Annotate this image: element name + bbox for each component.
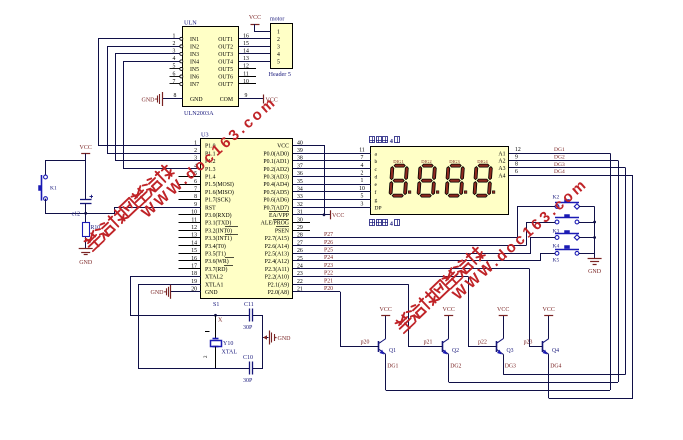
svg-text:10: 10 xyxy=(359,186,365,192)
svg-text:P3.7(RD): P3.7(RD) xyxy=(205,266,227,273)
connector J1 Header 5 motor xyxy=(269,16,293,78)
label p21 xyxy=(424,340,433,346)
svg-text:4: 4 xyxy=(361,163,364,169)
svg-text:p21: p21 xyxy=(424,340,433,346)
svg-text:DG2: DG2 xyxy=(450,364,461,370)
wire base p21 to Q2 xyxy=(409,284,443,346)
svg-text:P1.4: P1.4 xyxy=(205,175,216,181)
svg-text:P21: P21 xyxy=(324,278,333,284)
svg-text:PSEN: PSEN xyxy=(275,228,290,234)
svg-text:Q2: Q2 xyxy=(452,348,459,354)
svg-text:DG1: DG1 xyxy=(387,364,398,370)
svg-text:f: f xyxy=(375,189,377,196)
svg-text:IN7: IN7 xyxy=(190,82,199,88)
svg-text:ULN2003A: ULN2003A xyxy=(184,110,214,117)
ground for buttons xyxy=(588,259,602,276)
svg-text:P0.4(AD4): P0.4(AD4) xyxy=(263,181,289,188)
svg-text:P3.1(TXD): P3.1(TXD) xyxy=(205,220,231,227)
svg-text:P0.2(AD2): P0.2(AD2) xyxy=(263,166,289,173)
svg-text:GND: GND xyxy=(142,97,156,103)
wire ULN IN2 to MCU P1.1 xyxy=(108,47,202,154)
wire gnd spur xyxy=(263,335,269,339)
svg-text:VCC: VCC xyxy=(443,307,455,313)
svg-text:C10: C10 xyxy=(243,355,253,361)
svg-text:8: 8 xyxy=(174,93,177,99)
label DG1 at Q1 xyxy=(387,364,398,370)
svg-text:K3: K3 xyxy=(553,229,560,235)
svg-text:OUT6: OUT6 xyxy=(218,75,233,81)
svg-text:P2.0(A8): P2.0(A8) xyxy=(268,289,289,296)
wire MCU pin40 VCC xyxy=(293,146,325,215)
svg-text:DG4: DG4 xyxy=(554,169,565,175)
svg-text:motor: motor xyxy=(270,16,284,22)
VCC at ULN COM xyxy=(264,95,278,104)
label DG4 at Q4 xyxy=(550,364,561,370)
svg-text:2: 2 xyxy=(194,148,197,154)
pushbutton K1 reset xyxy=(39,175,57,201)
wire base p23 to Q4 xyxy=(530,269,543,347)
svg-text:P3.4(T0): P3.4(T0) xyxy=(205,243,226,250)
svg-text:P3.5(T1): P3.5(T1) xyxy=(205,251,226,258)
wire Q1 collector to DG1 xyxy=(386,390,610,392)
transistor Q1 xyxy=(379,316,397,391)
svg-text:p22: p22 xyxy=(478,340,487,346)
VCC at Q3 xyxy=(497,307,509,316)
wire Q4 collector to DG4 xyxy=(549,398,633,400)
pushbutton K5 xyxy=(555,246,579,256)
svg-text:GND: GND xyxy=(151,290,165,296)
svg-text:P20: P20 xyxy=(324,286,333,292)
label S1 below MCU xyxy=(213,302,219,308)
svg-text:VCC: VCC xyxy=(497,307,509,313)
MCU right stubs pins 30,29 xyxy=(293,223,310,231)
svg-text:EA/VPP: EA/VPP xyxy=(269,213,289,219)
display digit select wires A1-A4 with DG labels xyxy=(509,147,633,176)
svg-text:2: 2 xyxy=(361,171,364,177)
svg-text:g: g xyxy=(375,198,378,204)
svg-text:K4: K4 xyxy=(553,244,560,250)
svg-text:1: 1 xyxy=(194,140,197,146)
svg-text:P27: P27 xyxy=(324,232,333,238)
MCU pin numbers xyxy=(191,140,303,292)
svg-text:A4: A4 xyxy=(498,173,505,179)
svg-text:d: d xyxy=(375,175,378,181)
button labels xyxy=(553,195,560,264)
svg-text:IN1: IN1 xyxy=(190,37,199,43)
svg-text:c12: c12 xyxy=(72,212,80,218)
svg-text:P3.3(INT1): P3.3(INT1) xyxy=(205,235,232,242)
wire K1 bottom xyxy=(46,199,86,214)
svg-text:XTAL: XTAL xyxy=(222,350,238,356)
svg-text:5: 5 xyxy=(361,194,364,200)
bus wires P0.0-P0.7 to display segments xyxy=(293,147,371,207)
svg-text:K5: K5 xyxy=(553,258,560,264)
svg-text:7: 7 xyxy=(173,79,176,85)
IC U4 ULN2003A body xyxy=(183,20,239,118)
svg-text:P0.6(AD6): P0.6(AD6) xyxy=(263,197,289,204)
wire MCU pin31 EA to VCC xyxy=(293,213,330,216)
svg-text:C11: C11 xyxy=(244,302,254,308)
svg-text:A3: A3 xyxy=(498,166,505,172)
svg-text:P23: P23 xyxy=(324,263,333,269)
svg-text:Y10: Y10 xyxy=(223,341,233,347)
svg-text:GND: GND xyxy=(79,260,93,266)
svg-text:P0.0(AD0): P0.0(AD0) xyxy=(263,150,289,157)
wire net P26 xyxy=(293,240,526,246)
svg-text:P0.7(AD7): P0.7(AD7) xyxy=(263,204,289,211)
svg-text:A2: A2 xyxy=(498,159,505,165)
ULN2003A output pins 16-10 and wires to header xyxy=(239,34,271,85)
svg-text:IN4: IN4 xyxy=(190,60,199,66)
svg-text:b: b xyxy=(375,159,378,165)
ULN2003A pin 9 COM wire xyxy=(239,93,264,99)
svg-text:VCC: VCC xyxy=(277,144,289,150)
wire net P23 xyxy=(293,263,530,269)
wire Q3 collector to DG3 xyxy=(503,374,625,376)
svg-text:Q4: Q4 xyxy=(552,348,559,354)
svg-text:1: 1 xyxy=(361,178,364,184)
svg-text:P0.1(AD1): P0.1(AD1) xyxy=(263,158,289,165)
label p22 xyxy=(478,340,487,346)
svg-text:OUT2: OUT2 xyxy=(218,45,233,51)
svg-text:RST: RST xyxy=(205,205,216,211)
ground at ULN pin 8 xyxy=(142,92,163,106)
svg-text:DIG4: DIG4 xyxy=(477,159,488,164)
wire XTAL2 to node X xyxy=(131,277,216,316)
capacitor C11 xyxy=(243,302,254,331)
wire GND pin20 xyxy=(171,291,201,293)
pushbutton K3 xyxy=(555,215,579,224)
header pin numbers 1-5 xyxy=(277,30,280,66)
IC U3 AT89C51 body xyxy=(201,132,293,299)
wire K3 to P26 xyxy=(527,223,556,246)
button common ground rail xyxy=(579,207,596,259)
svg-text:XTAL2: XTAL2 xyxy=(205,275,223,281)
svg-text:A1: A1 xyxy=(498,151,505,157)
svg-text:ULN: ULN xyxy=(184,20,197,27)
svg-text:6: 6 xyxy=(173,71,176,77)
svg-text:11: 11 xyxy=(359,147,365,153)
svg-text:VCC: VCC xyxy=(543,307,555,313)
ULN2003A pin names xyxy=(190,37,233,103)
crystal Y10 XTAL xyxy=(204,315,237,368)
wire crystal bottom to C10 xyxy=(216,368,264,370)
VCC at Q1 xyxy=(380,307,392,316)
transistor Q2 xyxy=(442,316,459,383)
svg-text:p23: p23 xyxy=(524,340,533,346)
svg-text:11: 11 xyxy=(243,71,249,77)
svg-text:P25: P25 xyxy=(324,248,333,254)
svg-text:35: 35 xyxy=(297,179,303,185)
svg-text:12: 12 xyxy=(243,64,249,70)
svg-text:DIG1: DIG1 xyxy=(393,159,404,164)
svg-text:P2.4(A12): P2.4(A12) xyxy=(265,258,289,265)
svg-text:XTLA1: XTLA1 xyxy=(205,282,223,288)
wire base p22 to Q3 xyxy=(469,276,497,346)
svg-text:OUT7: OUT7 xyxy=(218,82,233,88)
wire ULN IN3 to MCU P1.2 xyxy=(116,54,202,161)
svg-text:P24: P24 xyxy=(324,255,333,261)
svg-text:Q1: Q1 xyxy=(389,348,396,354)
wire node X to C11 xyxy=(216,315,250,317)
svg-text:P22: P22 xyxy=(324,271,333,277)
ULN2003A pin 8 GND wire xyxy=(162,93,183,99)
svg-text:P0.3(AD3): P0.3(AD3) xyxy=(263,174,289,181)
svg-text:DG3: DG3 xyxy=(554,162,565,168)
svg-text:6: 6 xyxy=(515,169,518,175)
svg-text:P2.6(A14): P2.6(A14) xyxy=(265,243,289,250)
svg-text:OUT4: OUT4 xyxy=(218,60,233,66)
svg-text:P0.5(AD5): P0.5(AD5) xyxy=(263,189,289,196)
svg-text:GND: GND xyxy=(588,269,602,275)
svg-text:VCC: VCC xyxy=(332,213,344,219)
ground at MCU pin 20 xyxy=(151,285,171,299)
svg-text:OUT5: OUT5 xyxy=(218,67,233,73)
svg-text:1: 1 xyxy=(277,30,280,36)
display caption top xyxy=(370,137,400,145)
svg-text:K1: K1 xyxy=(50,186,57,192)
svg-text:2: 2 xyxy=(277,37,280,43)
display pin names xyxy=(375,151,506,211)
MCU pin names xyxy=(205,144,290,296)
svg-text:VCC: VCC xyxy=(80,145,92,151)
VCC for motor header xyxy=(249,15,271,32)
wire Q2 collector to DG2 xyxy=(449,382,618,384)
ground right of C11 xyxy=(270,331,292,345)
label DG2 at Q2 xyxy=(450,364,461,370)
watermark stamp 2 xyxy=(394,175,591,333)
wire reset top xyxy=(46,161,86,200)
wire net P25 xyxy=(293,248,531,254)
svg-text:5: 5 xyxy=(173,64,176,70)
svg-text:P1.7(SCK): P1.7(SCK) xyxy=(205,197,231,204)
wire base p20 to Q1 xyxy=(341,292,380,347)
pushbutton K2 xyxy=(555,200,580,210)
svg-text:P3.6(WR): P3.6(WR) xyxy=(205,258,229,265)
svg-text:X: X xyxy=(218,318,223,324)
VCC at EA pin xyxy=(331,210,345,219)
wire net P24 xyxy=(293,255,541,261)
ULN2003A input pins 1-7 with bubbles xyxy=(170,34,183,86)
watermark stamp 1 xyxy=(83,93,280,251)
wire C11 to right rail xyxy=(253,315,263,368)
svg-text:GND: GND xyxy=(190,97,203,103)
svg-text:VCC: VCC xyxy=(380,307,392,313)
svg-text:p20: p20 xyxy=(361,340,370,346)
display DS1 body xyxy=(371,147,509,215)
svg-text:7: 7 xyxy=(361,155,364,161)
label DG3 at Q3 xyxy=(505,364,516,370)
svg-text:3: 3 xyxy=(361,201,364,207)
wire K5 to P24 xyxy=(541,254,556,262)
wire net P20 xyxy=(293,286,340,292)
pushbutton K4 xyxy=(555,231,580,241)
VCC at Q4 xyxy=(543,307,555,316)
transistor Q3 xyxy=(497,316,514,375)
transistor Q4 xyxy=(542,316,559,399)
svg-text:U3: U3 xyxy=(201,132,209,139)
svg-text:GND: GND xyxy=(278,336,292,342)
svg-text:30P: 30P xyxy=(243,325,253,331)
svg-text:15: 15 xyxy=(243,41,249,47)
resistor R10 xyxy=(83,213,101,249)
MCU unconnected left stubs xyxy=(179,177,202,269)
svg-text:10: 10 xyxy=(243,79,249,85)
svg-text:P2.1(A9): P2.1(A9) xyxy=(268,281,289,288)
wire K2 to P27 xyxy=(518,207,556,238)
7-segment digit DIG3 xyxy=(445,159,467,197)
svg-text:OUT3: OUT3 xyxy=(218,52,233,58)
label p23 xyxy=(524,340,533,346)
svg-text:4: 4 xyxy=(277,52,280,58)
label p20 xyxy=(361,340,370,346)
svg-text:P2.7(A15): P2.7(A15) xyxy=(265,235,289,242)
svg-text:9: 9 xyxy=(245,93,248,99)
svg-text:Header 5: Header 5 xyxy=(269,71,292,78)
svg-text:DG2: DG2 xyxy=(554,155,565,161)
svg-text:DG1: DG1 xyxy=(554,147,565,153)
capacitor c12 xyxy=(72,195,93,218)
display caption bottom xyxy=(370,220,400,228)
svg-text:OUT1: OUT1 xyxy=(218,37,233,43)
wire net P27 xyxy=(293,232,518,238)
svg-text:DP: DP xyxy=(375,205,382,211)
vertical wires DG1-DG4 right side xyxy=(611,153,633,398)
svg-text:P2.5(A13): P2.5(A13) xyxy=(265,251,289,258)
7-segment digit DIG1 xyxy=(389,159,411,197)
svg-text:DG4: DG4 xyxy=(550,364,561,370)
wire net P22 xyxy=(293,271,468,277)
svg-text:9: 9 xyxy=(515,154,518,160)
wire ULN IN1 to MCU P1.0 xyxy=(99,39,202,146)
svg-text:IN5: IN5 xyxy=(190,67,199,73)
svg-text:8: 8 xyxy=(515,162,518,168)
svg-text:ALE/PROG: ALE/PROG xyxy=(261,221,289,227)
VCC for reset xyxy=(80,145,92,161)
ground for reset xyxy=(79,249,93,267)
svg-text:16: 16 xyxy=(243,34,249,40)
wire reset to RST pin xyxy=(86,208,201,214)
wire K4 to P25 xyxy=(531,238,556,254)
capacitor C10 xyxy=(243,355,253,384)
svg-text:P26: P26 xyxy=(324,240,333,246)
svg-text:COM: COM xyxy=(220,97,233,103)
VCC at Q2 xyxy=(443,307,455,316)
wire net P21 xyxy=(293,278,408,284)
svg-text:Q3: Q3 xyxy=(507,348,514,354)
svg-text:GND: GND xyxy=(205,290,218,296)
svg-text:IN6: IN6 xyxy=(190,75,199,81)
wire XTLA1 to crystal bottom xyxy=(139,285,216,369)
svg-text:DIG3: DIG3 xyxy=(449,159,460,164)
7-segment digit DIG2 xyxy=(417,159,439,197)
svg-text:DG3: DG3 xyxy=(505,364,516,370)
wire ULN IN4 to MCU P1.3 xyxy=(124,62,202,169)
svg-text:S1: S1 xyxy=(213,302,219,308)
svg-text:14: 14 xyxy=(243,49,249,55)
svg-text:P3.0(RXD): P3.0(RXD) xyxy=(205,212,232,219)
svg-text:30P: 30P xyxy=(243,378,253,384)
node X junction xyxy=(214,314,223,324)
svg-text:12: 12 xyxy=(515,147,521,153)
7-segment digit DIG4 xyxy=(473,159,495,197)
svg-text:3: 3 xyxy=(277,44,280,50)
svg-text:P2.3(A11): P2.3(A11) xyxy=(265,266,289,273)
svg-text:P2.2(A10): P2.2(A10) xyxy=(265,274,289,281)
svg-text:P3.2(INT0): P3.2(INT0) xyxy=(205,227,232,234)
svg-text:IN2: IN2 xyxy=(190,45,199,51)
svg-text:VCC: VCC xyxy=(249,15,261,21)
svg-text:IN3: IN3 xyxy=(190,52,199,58)
svg-text:P1.5(MOSI): P1.5(MOSI) xyxy=(205,181,234,188)
svg-text:P1.6(MISO): P1.6(MISO) xyxy=(205,189,234,196)
svg-text:DIG2: DIG2 xyxy=(421,159,432,164)
svg-text:13: 13 xyxy=(243,56,249,62)
svg-text:5: 5 xyxy=(277,59,280,65)
junction reset node xyxy=(84,212,87,215)
